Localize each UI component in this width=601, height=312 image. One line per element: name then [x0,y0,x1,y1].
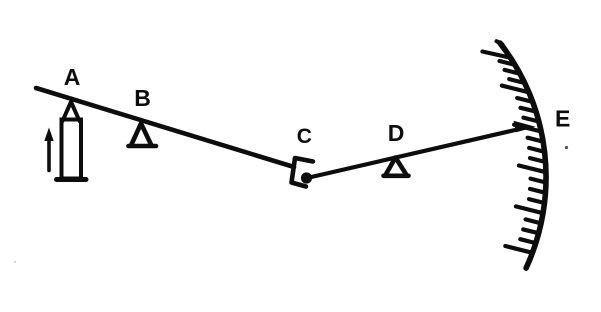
tick 10 (short) [529,148,544,152]
faint speck bottom-left [14,261,16,263]
input motion arrow shaft [47,139,51,171]
tick 16 (long) [516,206,543,213]
svg-text:A: A [64,64,81,90]
arc top hook [497,41,503,44]
plunger tip at A [63,102,80,121]
fulcrum D base [384,174,409,179]
tick 19 (short) [520,239,535,243]
scale arc [500,43,546,268]
tick 12 (long) [519,166,546,173]
scale ticks [482,52,546,253]
svg-text:C: C [297,125,312,148]
tick 18 (short) [523,229,538,233]
plunger base [57,177,87,182]
fulcrum D triangle [386,158,407,176]
speck near E [565,146,568,149]
tick 13 (short) [531,179,546,183]
pin joint at C [301,172,312,183]
tick 1 (short) [500,61,516,65]
tick 11 (short) [530,158,546,162]
tick 8 (long, at pointer) [514,125,541,132]
plunger body [62,120,82,179]
tick 9 (short) [528,138,544,142]
tick 3 (short) [509,79,525,83]
svg-text:B: B [134,85,151,111]
tick 17 (short) [526,219,541,223]
tick 15 (short) [529,199,544,203]
input motion arrow head [44,128,53,142]
tick 4 (long) [502,86,529,93]
fulcrum B base [129,144,157,149]
tick 6 (short) [521,108,537,112]
pointer arrowhead at E [514,121,536,132]
svg-text:E: E [555,106,570,132]
tick 7 (short) [523,118,538,122]
tick 5 (short) [517,98,533,102]
tick 0 (long) [482,52,509,58]
tick 14 (short) [530,189,545,193]
lever 1 (link A-B-C) [36,88,294,167]
tick 20 (long) [505,246,532,253]
fulcrum B triangle [131,124,152,146]
tick 2 (short) [505,70,520,74]
clevis bracket at C [292,158,314,187]
link 2 (pointer C-D-E) [307,128,526,179]
svg-text:D: D [388,120,405,146]
